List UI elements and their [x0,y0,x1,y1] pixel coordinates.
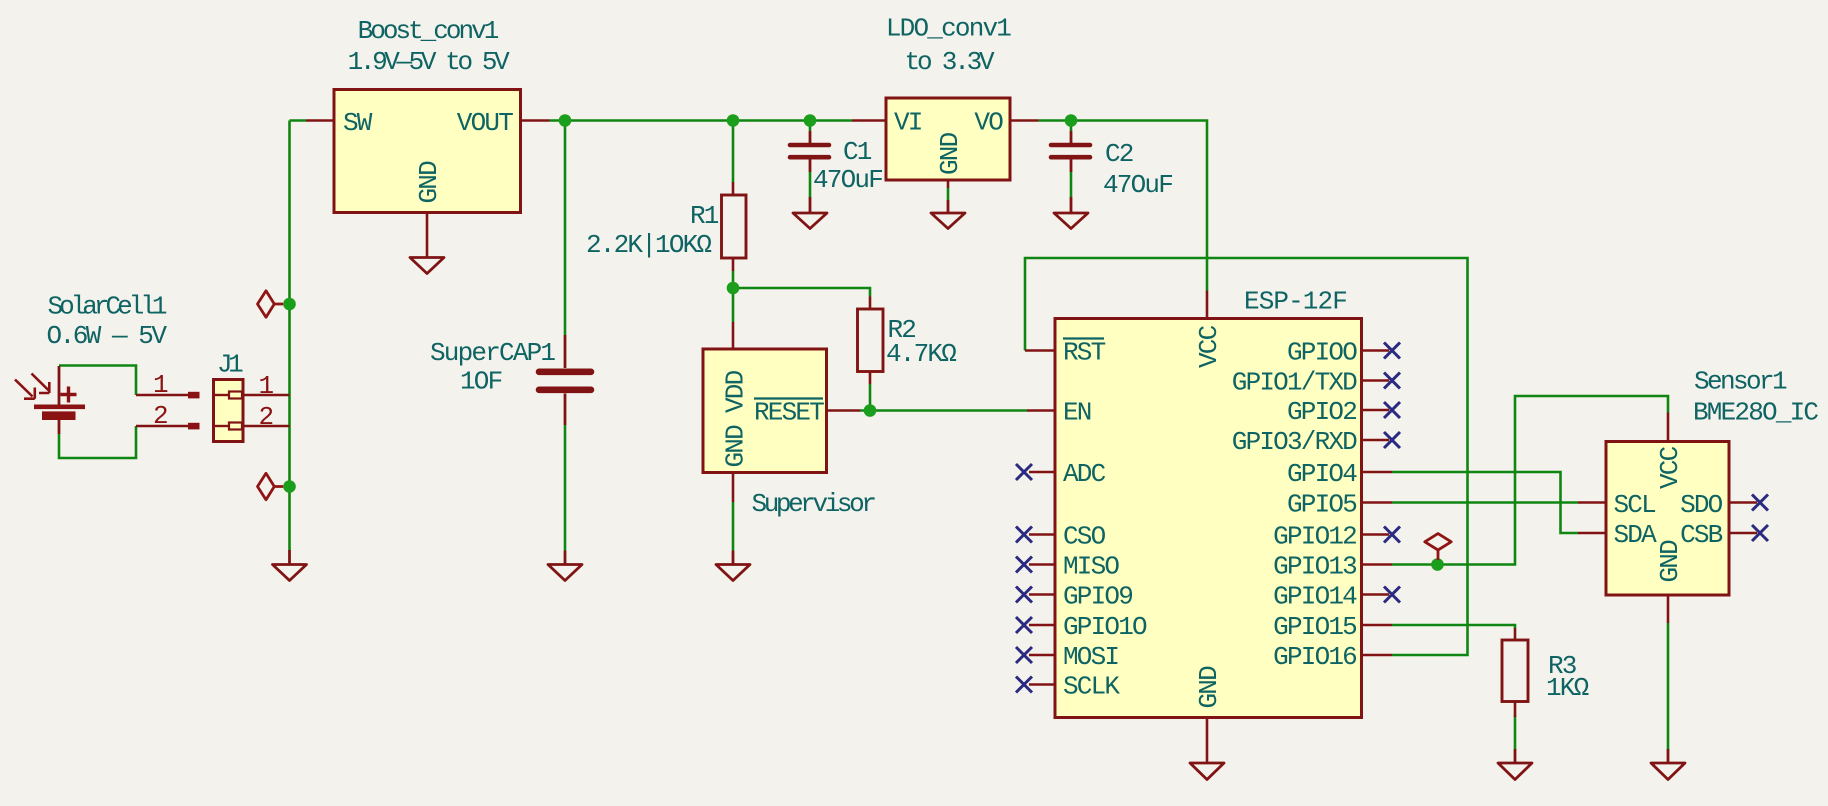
solar cell battery SolarCell1 [58,366,61,434]
svg-text:VI: VI [894,108,922,138]
wire R1 bottom to VDD [732,271,735,322]
svg-text:CSB: CSB [1680,520,1723,550]
svg-text:Sensor1: Sensor1 [1694,367,1787,397]
wire solarcell bottom loop [59,426,136,458]
svg-text:47OuF: 47OuF [813,165,882,195]
J1 pin2 inner graphic [215,425,229,427]
ground boost [410,258,444,274]
svg-text:ESP-12F: ESP-12F [1244,287,1347,317]
wire LDO gnd short [947,188,950,200]
ground C1 [793,197,827,229]
wire 5V rail green VOUT to VI [550,119,853,122]
pin stubs NC left ADC CS0 MISO GPIO9 GPIO10 MOSI SCLK [1029,472,1055,685]
svg-text:MOSI: MOSI [1063,642,1118,672]
svg-text:GPIO12: GPIO12 [1273,522,1356,552]
wire C2 leads [1070,121,1073,198]
pin stub VO [1010,119,1039,122]
wire GPIO13 to sensor VCC [1392,396,1668,565]
wire R2 bottom [869,384,872,411]
svg-text:BME28O_IC: BME28O_IC [1693,398,1818,428]
wire supervisor gnd [732,502,735,551]
wire GPIO15 to R3 [1392,625,1515,628]
solar arrow 1 [15,380,35,399]
svg-text:VO: VO [974,108,1003,138]
svg-text:EN: EN [1063,398,1091,428]
ground R3 [1498,749,1532,780]
ground sensor [1651,749,1685,780]
svg-text:SolarCell1: SolarCell1 [48,292,167,322]
resistor R3 [1502,640,1528,702]
boost converter box U Boost_conv1 [334,90,521,213]
connector J1 box [214,380,244,442]
svg-text:RESET: RESET [754,398,824,428]
wire SW left vertical [290,121,307,551]
wire C1 leads [809,121,812,198]
svg-text:GPIOO: GPIOO [1287,338,1357,368]
capacitor SuperCAP1 [564,335,567,368]
ground C2 [1054,197,1088,229]
solar plus sign [61,387,77,403]
svg-text:VOUT: VOUT [457,108,513,138]
svg-text:2: 2 [153,401,167,431]
no-connect X marks sensor [1752,495,1768,542]
solar arrow 2 [32,374,50,394]
pin stubs solar cell [136,395,190,426]
svg-text:SCLK: SCLK [1063,672,1120,702]
net tie diamond lower J1 [258,473,284,499]
pin stub SW [306,119,334,122]
svg-text:1OF: 1OF [460,367,502,397]
svg-text:GPIO13: GPIO13 [1273,552,1356,582]
svg-text:VDD: VDD [721,370,751,413]
wire GPIO5 to SCL [1392,501,1578,504]
svg-text:VCC: VCC [1655,446,1685,489]
ground ESP [1190,763,1224,780]
svg-text:GPIO1/TXD: GPIO1/TXD [1232,368,1357,398]
svg-text:SCL: SCL [1614,490,1656,520]
svg-text:2.2K|1OKΩ: 2.2K|1OKΩ [586,230,711,260]
net tie diamond GPIO13 [1425,534,1451,560]
svg-text:C2: C2 [1105,139,1133,169]
svg-text:to 3.3V: to 3.3V [905,47,995,77]
svg-text:GPIO4: GPIO4 [1287,459,1357,489]
svg-text:VCC: VCC [1194,325,1224,368]
svg-text:1: 1 [259,371,274,401]
svg-text:GPIO3/RXD: GPIO3/RXD [1232,427,1357,457]
resistor R1 [722,195,747,258]
wire RST GPIO16 loop [1025,258,1468,655]
svg-text:GND: GND [1194,666,1224,709]
wire SuperCAP bottom [564,425,567,551]
wire R1 junction to R2 top [733,288,870,297]
svg-text:GND: GND [721,425,751,468]
svg-text:GPIO1O: GPIO1O [1063,612,1147,642]
wire RESET to EN [860,409,1027,412]
wire VO to VCC corner [1039,121,1208,291]
no-connect X marks left [1016,464,1032,693]
no-connect X marks right [1384,343,1400,603]
pin stub sensor GND [1667,595,1670,623]
ground J1 [273,550,307,581]
wire solarcell top loop [59,366,136,396]
capacitor C1 [809,131,812,143]
svg-text:GND: GND [935,132,965,175]
svg-text:SDA: SDA [1614,520,1658,550]
wire sensor gnd [1667,623,1670,749]
solar pin nub 2 [188,423,200,430]
svg-text:GPIO9: GPIO9 [1063,582,1132,612]
J1 pin1 inner graphic [215,394,229,396]
pin stub sensor VCC [1667,413,1670,442]
svg-text:GND: GND [1655,540,1685,583]
pin stubs sensor SDO CSB [1729,503,1757,534]
svg-text:GND: GND [414,161,444,204]
pin stub boost GND [426,213,429,258]
svg-text:R1: R1 [690,201,719,231]
wire R3 bottom [1514,716,1517,750]
svg-text:2: 2 [259,402,273,432]
pin stubs SCL SDA [1578,503,1606,534]
LDO box LDO_conv1 [886,98,1010,180]
svg-text:4.7KΩ: 4.7KΩ [886,339,956,369]
svg-text:1: 1 [153,370,168,400]
supervisor box [703,349,827,473]
svg-text:Boost_conv1: Boost_conv1 [358,16,499,46]
svg-text:1.9V—5V to 5V: 1.9V—5V to 5V [348,47,510,77]
svg-text:GPIO2: GPIO2 [1287,397,1356,427]
solar pin nub 1 [188,392,200,399]
ground LDO [931,200,965,229]
ground supercap [548,551,582,581]
svg-text:CSO: CSO [1063,522,1106,552]
svg-text:J1: J1 [217,350,243,380]
net tie diamond upper J1 [258,291,284,317]
svg-text:LDO_conv1: LDO_conv1 [886,14,1011,44]
ground supervisor [716,551,750,581]
svg-text:C1: C1 [843,137,872,167]
pin stub ESP VCC [1206,291,1209,319]
pin stubs J1 right [243,395,290,426]
svg-text:SDO: SDO [1680,490,1723,520]
pin stub LDO GND [947,180,950,188]
svg-text:ADC: ADC [1063,459,1106,489]
wire GPIO4 to SDA [1392,472,1578,533]
svg-text:GPIO15: GPIO15 [1273,612,1356,642]
svg-text:47OuF: 47OuF [1103,170,1172,200]
svg-text:Supervisor: Supervisor [752,489,876,519]
pin stub EN [1027,409,1055,412]
pin stubs GPIO4 GPIO5 GPIO13 GPIO15 GPIO16 [1361,472,1392,655]
pin stub supervisor GND [732,473,735,503]
pin stub VI [852,119,886,122]
pin stubs NC right GPIO0 GPIO1 GPIO2 GPIO3 GPIO12 GPIO14 [1361,351,1389,595]
svg-text:SuperCAP1: SuperCAP1 [430,338,555,368]
svg-text:GPIO5: GPIO5 [1287,490,1356,520]
wire SuperCAP top [564,121,567,336]
pin stub ESP GND [1206,718,1209,764]
sensor box BME280 [1606,442,1729,596]
pin stub RST [1025,349,1055,352]
ESP-12F box U1 [1055,319,1362,718]
svg-text:GPIO16: GPIO16 [1273,642,1356,672]
svg-text:RST: RST [1063,338,1106,368]
junction dots [559,114,572,127]
wire R1 top [732,121,735,183]
pin stub RESET [827,409,861,412]
svg-text:MISO: MISO [1063,552,1119,582]
pin stub supervisor VDD [732,322,735,349]
resistor R2 [858,309,884,372]
svg-text:O.6W — 5V: O.6W — 5V [47,321,168,351]
svg-text:1KΩ: 1KΩ [1546,673,1589,703]
svg-text:SW: SW [343,108,373,138]
svg-text:GPIO14: GPIO14 [1273,582,1357,612]
pin stub VOUT [521,119,550,122]
capacitor C2 [1070,131,1073,143]
